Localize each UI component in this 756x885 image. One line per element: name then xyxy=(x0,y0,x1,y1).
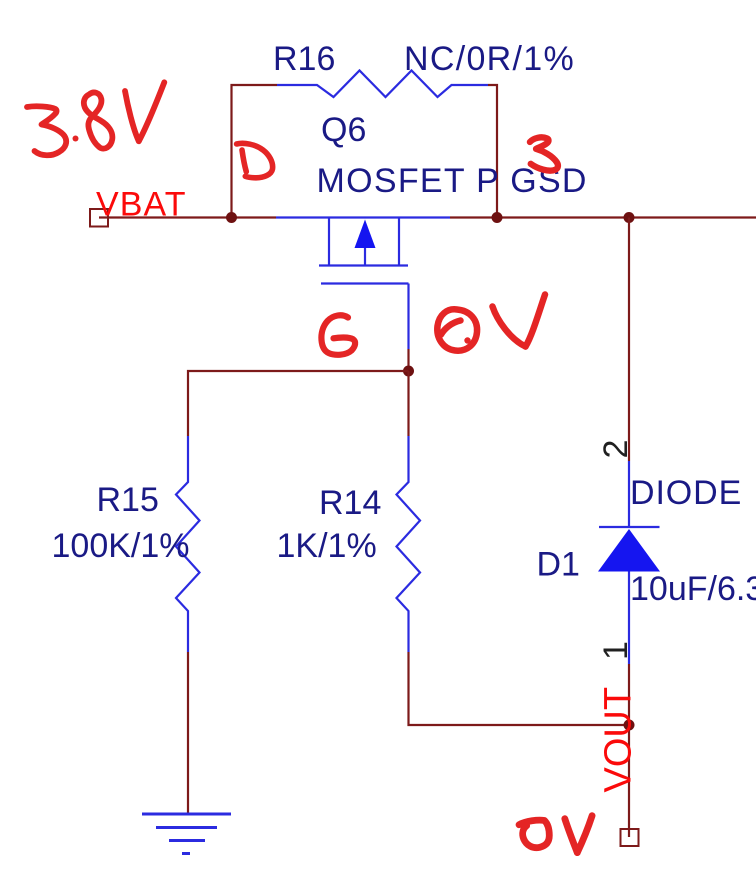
diode D1 xyxy=(598,461,660,664)
wire diode anode to VOUT port xyxy=(628,664,630,837)
junction VOUT node xyxy=(624,720,635,731)
svg-text:10uF/6.3: 10uF/6.3 xyxy=(630,570,756,608)
wire R15 to ground xyxy=(187,652,189,814)
wire diode cathode to top rail xyxy=(628,218,630,462)
wire MOSFET source to right edge xyxy=(450,216,756,218)
wire VBAT to MOSFET drain xyxy=(99,216,276,218)
svg-text:D1: D1 xyxy=(537,546,580,584)
svg-text:R15: R15 xyxy=(97,481,159,519)
svg-text:100K/1%: 100K/1% xyxy=(52,527,190,565)
svg-text:NC/0R/1%: NC/0R/1% xyxy=(404,40,575,78)
annotation 0V at VOUT xyxy=(519,816,592,853)
wire divider node to R14 xyxy=(407,371,409,436)
wire divider node to R15 xyxy=(188,371,409,436)
resistor R14 xyxy=(397,436,421,652)
svg-text:1: 1 xyxy=(597,641,635,660)
resistor R15 xyxy=(176,436,200,652)
annotation G xyxy=(321,315,355,355)
annotation S xyxy=(530,137,558,170)
svg-text:R14: R14 xyxy=(319,484,381,522)
svg-text:Q6: Q6 xyxy=(321,111,366,149)
port VBAT square xyxy=(90,209,108,227)
junction diode top node xyxy=(624,212,635,223)
svg-text:R16: R16 xyxy=(273,40,335,78)
wire R16 right leg xyxy=(488,85,497,218)
svg-text:DIODE: DIODE xyxy=(630,474,742,512)
annotation 0V at gate xyxy=(437,295,545,351)
junction gate node xyxy=(403,366,414,377)
junction VBAT node xyxy=(226,212,237,223)
junction source node xyxy=(492,212,503,223)
resistor R16 xyxy=(277,71,488,98)
annotation 3.8V xyxy=(27,82,164,155)
port VOUT square xyxy=(621,829,639,846)
svg-text:1K/1%: 1K/1% xyxy=(277,527,377,565)
svg-text:2: 2 xyxy=(597,440,635,459)
wire gate to divider node xyxy=(407,349,409,371)
ground xyxy=(142,814,231,854)
wire R16 left leg xyxy=(232,85,278,218)
transistor Q6 (P-MOSFET) xyxy=(276,218,450,350)
svg-text:VOUT: VOUT xyxy=(598,687,640,793)
wire R14 to VOUT net xyxy=(409,652,630,725)
annotation D xyxy=(237,143,273,177)
